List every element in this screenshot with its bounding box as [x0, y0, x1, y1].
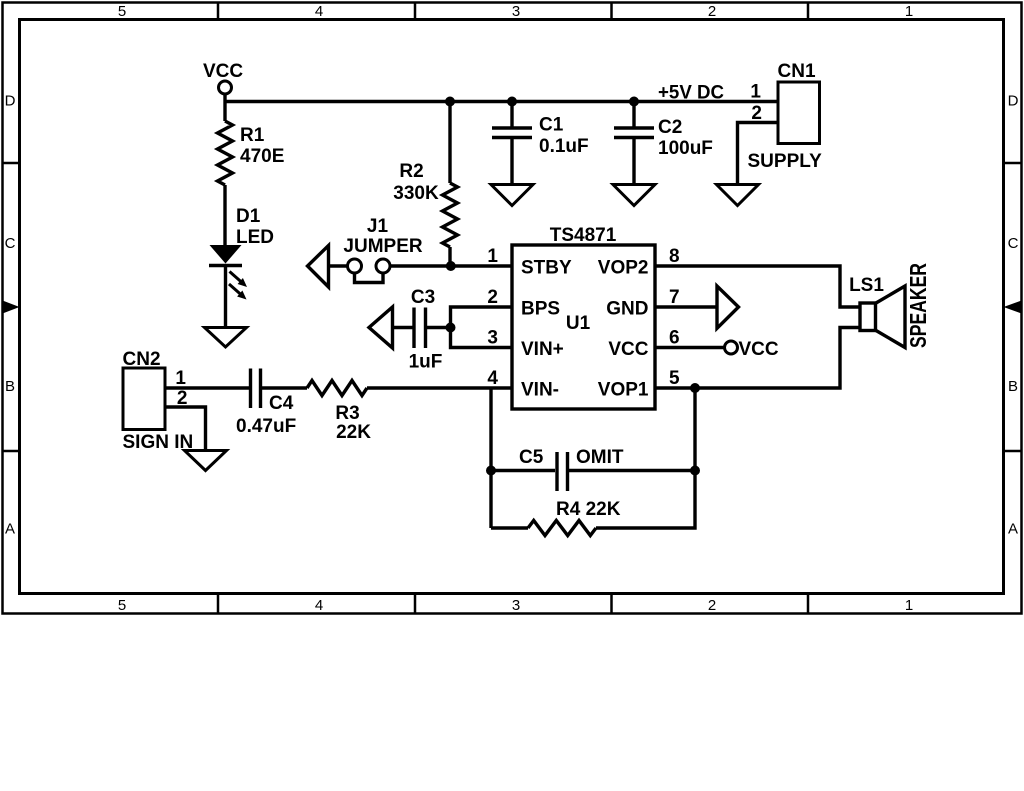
svg-text:4: 4	[487, 368, 498, 389]
svg-text:+5V DC: +5V DC	[658, 83, 724, 104]
svg-text:1: 1	[905, 597, 913, 614]
svg-text:C: C	[1008, 235, 1019, 252]
svg-text:D: D	[1008, 93, 1019, 110]
svg-text:C1: C1	[539, 115, 564, 136]
svg-text:1: 1	[905, 3, 913, 20]
svg-text:JUMPER: JUMPER	[343, 236, 422, 257]
svg-text:VOP2: VOP2	[598, 258, 649, 279]
svg-text:2: 2	[487, 287, 498, 308]
svg-text:GND: GND	[606, 299, 648, 320]
svg-text:470E: 470E	[240, 146, 284, 167]
svg-text:LED: LED	[236, 227, 274, 248]
svg-text:CN1: CN1	[778, 61, 816, 82]
svg-text:LS1: LS1	[849, 275, 884, 296]
svg-text:VIN-: VIN-	[521, 380, 559, 401]
svg-text:5: 5	[118, 597, 126, 614]
svg-text:C3: C3	[411, 287, 435, 308]
svg-text:VOP1: VOP1	[598, 380, 649, 401]
svg-text:R2: R2	[399, 161, 423, 182]
svg-text:C4: C4	[269, 393, 294, 414]
svg-text:4: 4	[315, 597, 323, 614]
svg-text:C: C	[5, 235, 16, 252]
svg-text:3: 3	[512, 3, 520, 20]
svg-text:R4 22K: R4 22K	[556, 499, 621, 520]
svg-text:1: 1	[175, 368, 186, 389]
svg-text:B: B	[5, 378, 15, 395]
svg-text:7: 7	[669, 287, 680, 308]
svg-text:0.1uF: 0.1uF	[539, 136, 589, 157]
svg-text:VCC: VCC	[203, 61, 243, 82]
svg-text:330K: 330K	[393, 183, 439, 204]
svg-text:VCC: VCC	[739, 339, 779, 360]
svg-text:TS4871: TS4871	[550, 225, 617, 246]
svg-text:C2: C2	[658, 117, 682, 138]
svg-text:4: 4	[315, 3, 323, 20]
svg-text:6: 6	[669, 328, 680, 349]
svg-text:D1: D1	[236, 206, 261, 227]
svg-text:SUPPLY: SUPPLY	[748, 151, 823, 172]
svg-text:1uF: 1uF	[409, 352, 443, 373]
svg-text:C5: C5	[519, 447, 544, 468]
svg-text:R1: R1	[240, 125, 265, 146]
svg-text:R3: R3	[335, 403, 359, 424]
svg-text:J1: J1	[367, 216, 389, 237]
svg-text:D: D	[5, 93, 16, 110]
svg-text:BPS: BPS	[521, 299, 560, 320]
svg-text:5: 5	[118, 3, 126, 20]
svg-text:CN2: CN2	[123, 349, 161, 370]
svg-text:2: 2	[177, 388, 188, 409]
svg-text:3: 3	[512, 597, 520, 614]
svg-text:3: 3	[487, 328, 498, 349]
svg-text:U1: U1	[566, 313, 591, 334]
svg-text:STBY: STBY	[521, 258, 572, 279]
svg-text:OMIT: OMIT	[576, 447, 624, 468]
svg-text:8: 8	[669, 246, 680, 267]
svg-text:SIGN IN: SIGN IN	[123, 432, 194, 453]
svg-text:2: 2	[751, 103, 762, 124]
svg-text:VCC: VCC	[608, 339, 648, 360]
svg-text:1: 1	[487, 246, 498, 267]
svg-text:5: 5	[669, 368, 680, 389]
svg-text:0.47uF: 0.47uF	[236, 416, 296, 437]
svg-text:A: A	[5, 521, 15, 538]
svg-text:22K: 22K	[336, 422, 371, 443]
svg-text:SPEAKER: SPEAKER	[905, 263, 931, 348]
svg-text:2: 2	[708, 3, 716, 20]
svg-text:VIN+: VIN+	[521, 339, 564, 360]
svg-text:A: A	[1008, 521, 1018, 538]
svg-text:100uF: 100uF	[658, 138, 713, 159]
svg-text:B: B	[1008, 378, 1018, 395]
svg-text:2: 2	[708, 597, 716, 614]
svg-text:1: 1	[750, 82, 761, 103]
